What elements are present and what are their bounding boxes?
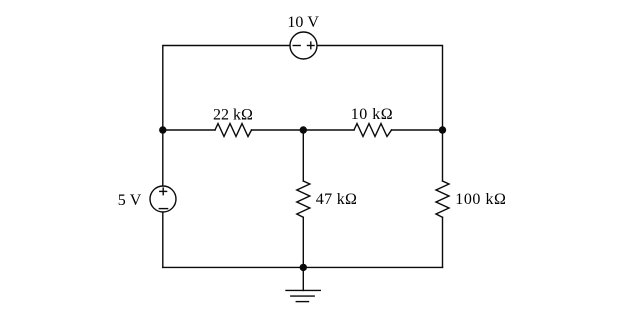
svg-text:47 kΩ: 47 kΩ xyxy=(316,191,357,208)
svg-text:100 kΩ: 100 kΩ xyxy=(455,191,506,208)
resistor R3 47 kOhm zigzag xyxy=(297,181,310,217)
wire left lower (5V source to bottom-left corner) xyxy=(162,212,164,267)
wire node B to 10k xyxy=(303,129,354,131)
wire top-right (from 10V source to top-right corner) xyxy=(317,46,443,131)
wire middle branch lower (47k to bottom node D) xyxy=(302,217,304,267)
node D junction dot (ground node) xyxy=(300,264,307,271)
svg-text:5 V: 5 V xyxy=(118,192,142,209)
node C junction dot xyxy=(439,126,446,133)
resistor R4 100 kOhm zigzag xyxy=(436,181,449,217)
wire middle branch upper (node B to 47k) xyxy=(302,130,304,181)
svg-text:10 kΩ: 10 kΩ xyxy=(351,106,393,123)
node B junction dot xyxy=(300,126,307,133)
V2 minus sign xyxy=(159,208,167,210)
wire middle node A to 22k xyxy=(163,129,215,131)
wire 22k to node B xyxy=(252,129,304,131)
wire left upper (node A to 5V source) xyxy=(162,130,164,186)
V1 minus sign xyxy=(293,45,300,47)
svg-text:22 kΩ: 22 kΩ xyxy=(213,106,253,123)
wire top-left (from top-left corner to 10V source) xyxy=(163,46,290,131)
V1 plus sign xyxy=(308,45,315,47)
node A junction dot xyxy=(159,126,166,133)
ground symbol xyxy=(286,267,320,301)
svg-text:10 V: 10 V xyxy=(287,14,319,31)
wire right lower (100k to bottom-right corner) xyxy=(442,217,444,267)
wire right upper (node C to 100k) xyxy=(442,130,444,181)
resistor R2 10 kOhm zigzag xyxy=(354,124,392,137)
wire bottom (bottom rail) xyxy=(163,266,443,268)
voltage source V1 10 V circle xyxy=(290,32,317,59)
resistor R1 22 kOhm zigzag xyxy=(215,124,252,137)
voltage source V2 5 V circle xyxy=(150,186,176,212)
V2 plus sign xyxy=(160,190,167,192)
wire 10k to node C xyxy=(392,129,443,131)
